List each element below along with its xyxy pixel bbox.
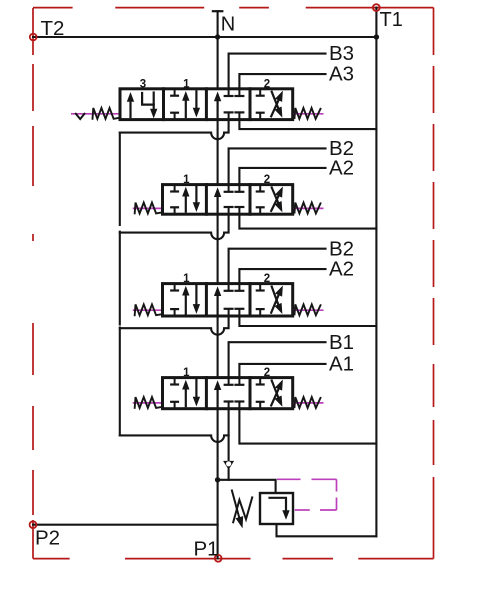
- pin label 3 (valve V1): [140, 78, 146, 90]
- wire V4 tank return: [239, 409, 376, 444]
- pilot lead (magenta) left of valve V1: [71, 113, 119, 115]
- wire T1 drop (tank return line): [375, 8, 377, 537]
- wire N feed to valve V1: [217, 37, 219, 89]
- wire P2 to P gallery: [33, 524, 218, 526]
- wire work port A2 (valve V3): [239, 269, 325, 284]
- pin label 2 (valve V3): [264, 273, 270, 285]
- pin label 2 (valve V4): [264, 367, 270, 379]
- relief valve adjustable spring: [232, 491, 252, 528]
- svg-text:A2: A2: [329, 157, 354, 180]
- spring right of valve V3: [295, 304, 321, 315]
- valve V3 position 2 symbol (crossed arrows): [257, 284, 283, 316]
- wire V1 bypass port to left rail (hop over centre line): [120, 120, 229, 140]
- pilot lead (magenta) left of valve V4: [133, 402, 161, 404]
- valve V1 position 3 symbol (lift/lower spool): [127, 93, 156, 118]
- spring left of valve V2: [135, 203, 161, 214]
- pilot lead (magenta) right of valve V2: [294, 207, 324, 209]
- label A2: [329, 157, 354, 180]
- wire work port A1 (valve V4): [239, 364, 325, 378]
- svg-text:N: N: [221, 14, 235, 36]
- label A1: [329, 353, 354, 376]
- wire relief valve outlet to tank: [277, 524, 377, 536]
- valve V1 position 2 symbol (crossed arrows): [257, 89, 283, 120]
- label P2: [35, 527, 60, 550]
- svg-text:A1: A1: [329, 353, 354, 376]
- lever/detent mark on V1 pilot lead: [76, 114, 85, 119]
- wire V3 tank return: [239, 316, 376, 326]
- valve V3 position 1 symbol (parallel arrows): [171, 284, 199, 316]
- junction N on tank bus: [215, 34, 220, 39]
- svg-text:1: 1: [183, 174, 190, 186]
- wire work port A2 (valve V2): [239, 168, 325, 185]
- pilot lead (magenta) right of valve V1: [294, 113, 324, 115]
- svg-text:2: 2: [264, 367, 270, 379]
- valve V2 body: [163, 185, 293, 215]
- svg-text:2: 2: [264, 174, 270, 186]
- valve V2 position 2 symbol (crossed arrows): [257, 185, 283, 215]
- wire left bypass rail segment 2: [119, 232, 121, 325]
- junction T1 on tank bus: [374, 34, 379, 39]
- pin label 2 (valve V1): [264, 78, 270, 90]
- pin label 1 (valve V1): [183, 78, 190, 90]
- wire work port A3 (valve V1): [239, 74, 325, 89]
- spring left of valve V3: [135, 304, 161, 315]
- pilot lead (magenta) right of valve V4: [294, 402, 324, 404]
- enclosure border (red dashed valve-block envelope): [33, 8, 434, 559]
- valve V1 body: [120, 89, 293, 120]
- label B3: [329, 42, 354, 65]
- wire work port B2 (valve V3): [229, 249, 326, 284]
- spring left of valve V4: [135, 397, 161, 408]
- svg-text:P2: P2: [35, 527, 60, 550]
- pilot lead (magenta) right of valve V3: [294, 309, 324, 311]
- svg-text:A2: A2: [329, 258, 354, 281]
- svg-text:3: 3: [140, 78, 146, 90]
- wire work port B3 (valve V1): [229, 54, 326, 89]
- label B2: [329, 237, 354, 260]
- wire V2 tank return: [239, 214, 376, 228]
- svg-text:T1: T1: [380, 9, 403, 31]
- valve V4 position 1 symbol (parallel arrows): [171, 378, 199, 409]
- port T2: [30, 34, 37, 41]
- valve V4 centre position symbol (bypass arrow, blocked ports): [215, 378, 244, 409]
- wire V4 outlet to check valve: [228, 409, 230, 462]
- pin label 1 (valve V3): [183, 273, 190, 285]
- label A2: [329, 258, 354, 281]
- wire bottom bypass to check valve (hop over centre line): [120, 435, 229, 442]
- label T2: [41, 17, 65, 40]
- svg-text:P1: P1: [194, 537, 219, 560]
- port N label: [221, 14, 235, 36]
- valve V4 position 2 symbol (crossed arrows): [257, 378, 283, 409]
- wire T2-N-T1 top tank bus: [33, 36, 376, 38]
- port P2: [30, 521, 37, 528]
- check valve (flow direction marker): [223, 461, 234, 470]
- wire bypass V1 to V2: [217, 120, 219, 185]
- label T1: [380, 9, 403, 31]
- wire left bypass rail segment 1: [119, 133, 121, 225]
- pilot lead (magenta) left of valve V3: [133, 309, 161, 311]
- pilot line (magenta dashed) to relief valve: [277, 479, 337, 510]
- svg-text:2: 2: [264, 273, 270, 285]
- label P1: [194, 537, 219, 560]
- port P1: [215, 555, 222, 562]
- port N stub with end cap: [213, 11, 222, 37]
- wire work port B1 (valve V4): [229, 342, 326, 377]
- valve V1 position 1 symbol (parallel arrows): [171, 89, 199, 120]
- svg-text:T2: T2: [41, 17, 65, 40]
- wire bypass V2 to V3: [217, 214, 219, 283]
- label A3: [329, 63, 354, 86]
- wire bypass V4 to P1: [217, 409, 219, 559]
- label B2: [329, 137, 354, 160]
- svg-text:1: 1: [183, 367, 190, 379]
- junction P gallery: [215, 477, 220, 482]
- svg-text:1: 1: [183, 78, 190, 90]
- port T1: [373, 4, 380, 11]
- pin label 2 (valve V2): [264, 174, 270, 186]
- wire bypass V3 to V4: [217, 316, 219, 378]
- pin label 1 (valve V4): [183, 367, 190, 379]
- wire V1 tank return: [239, 120, 376, 130]
- valve V2 centre position symbol (bypass arrow, blocked ports): [215, 185, 244, 215]
- wire P gallery to relief valve: [218, 480, 276, 493]
- wire left bypass rail segment 3: [119, 328, 121, 436]
- valve V3 centre position symbol (bypass arrow, blocked ports): [215, 284, 244, 316]
- spring right of valve V4: [295, 397, 321, 408]
- valve V3 body: [163, 284, 293, 316]
- valve V4 body: [163, 378, 293, 409]
- spring right of valve V2: [295, 203, 321, 214]
- pin label 1 (valve V2): [183, 174, 190, 186]
- pilot lead (magenta) left of valve V2: [133, 207, 161, 209]
- wire work port B2 (valve V2): [229, 148, 326, 184]
- svg-text:1: 1: [183, 273, 190, 285]
- spring left of valve V1: [93, 108, 119, 119]
- wire V2 bypass port to left rail (hop over centre line): [120, 214, 229, 239]
- svg-text:B1: B1: [329, 331, 354, 354]
- svg-text:2: 2: [264, 78, 270, 90]
- valve V2 position 1 symbol (parallel arrows): [171, 185, 199, 215]
- wire check valve to P gallery: [228, 470, 230, 480]
- valve V1 centre position symbol (bypass arrow, blocked ports): [215, 89, 244, 120]
- relief valve RV body: [260, 493, 293, 524]
- label B1: [329, 331, 354, 354]
- wire V3 bypass port to left rail (hop over centre line): [120, 316, 229, 335]
- spring right of valve V1: [295, 108, 321, 119]
- svg-text:A3: A3: [329, 63, 354, 86]
